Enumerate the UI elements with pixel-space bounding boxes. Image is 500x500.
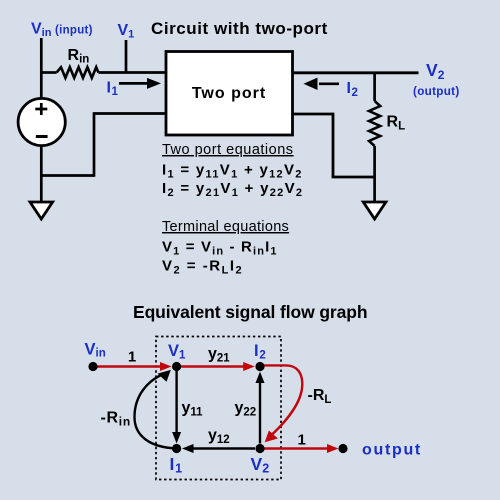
node V1 [172,362,181,371]
svg-text:(output): (output) [413,85,460,98]
wire: into box left [94,112,166,115]
wire: box right bottom [292,113,333,116]
dashed box around two-port of flow graph [156,337,281,480]
ground (left) [30,202,53,219]
svg-text:Circuit with two-port: Circuit with two-port [151,19,328,38]
wire: resistor to box [98,71,166,74]
edge y22: V2 up to I2 (black) [259,381,261,444]
wire: V1 stub [125,40,128,73]
voltage source VS [18,98,65,145]
two-port box U1 [166,52,293,136]
wire: RL bottom lead to ground [373,146,376,202]
wire: Vin vertical lead [40,38,43,98]
edge 1: Vin to V1 (red) [93,365,162,367]
node I1 [172,444,181,453]
resistor RL [369,101,380,146]
node V2 [255,444,264,453]
svg-text:Two port equations: Two port equations [162,142,294,158]
edge y12: V2 left to I1 (black) [192,447,255,449]
wire: bottom-left horizontal [41,174,94,177]
node Vin [88,362,97,371]
svg-text:Terminal equations: Terminal equations [162,219,289,235]
wire: horizontal to RL [332,176,375,179]
svg-text:output: output [362,442,422,459]
ground (right) [363,202,386,219]
svg-text:Two port: Two port [192,85,266,102]
edge -RL: I2 to V2 (red curve) [260,365,302,435]
wire: box right top to V2 [292,71,419,74]
resistor Rin [57,67,99,78]
arrow I1 [119,82,149,85]
edge y11: V1 down to I1 (black) [175,371,177,434]
svg-text:1: 1 [128,348,136,365]
wire: top-left horizontal to resistor [41,71,56,74]
svg-text:1: 1 [298,432,306,449]
svg-text:Equivalent signal flow graph: Equivalent signal flow graph [133,302,367,322]
wire: source bottom to ground [40,147,43,203]
wire: vertical up to box [93,112,96,177]
node output [338,444,347,453]
arrow I2 [319,82,339,85]
edge y21: V1 to I2 (red) [177,365,246,367]
edge -Rin: I1 loop to V1 (black curve) [135,374,177,448]
wire: vertical down [332,113,335,177]
edge 1: V2 to output (red) [260,447,328,449]
node I2 [255,362,264,371]
wire: RL top lead [373,73,376,101]
